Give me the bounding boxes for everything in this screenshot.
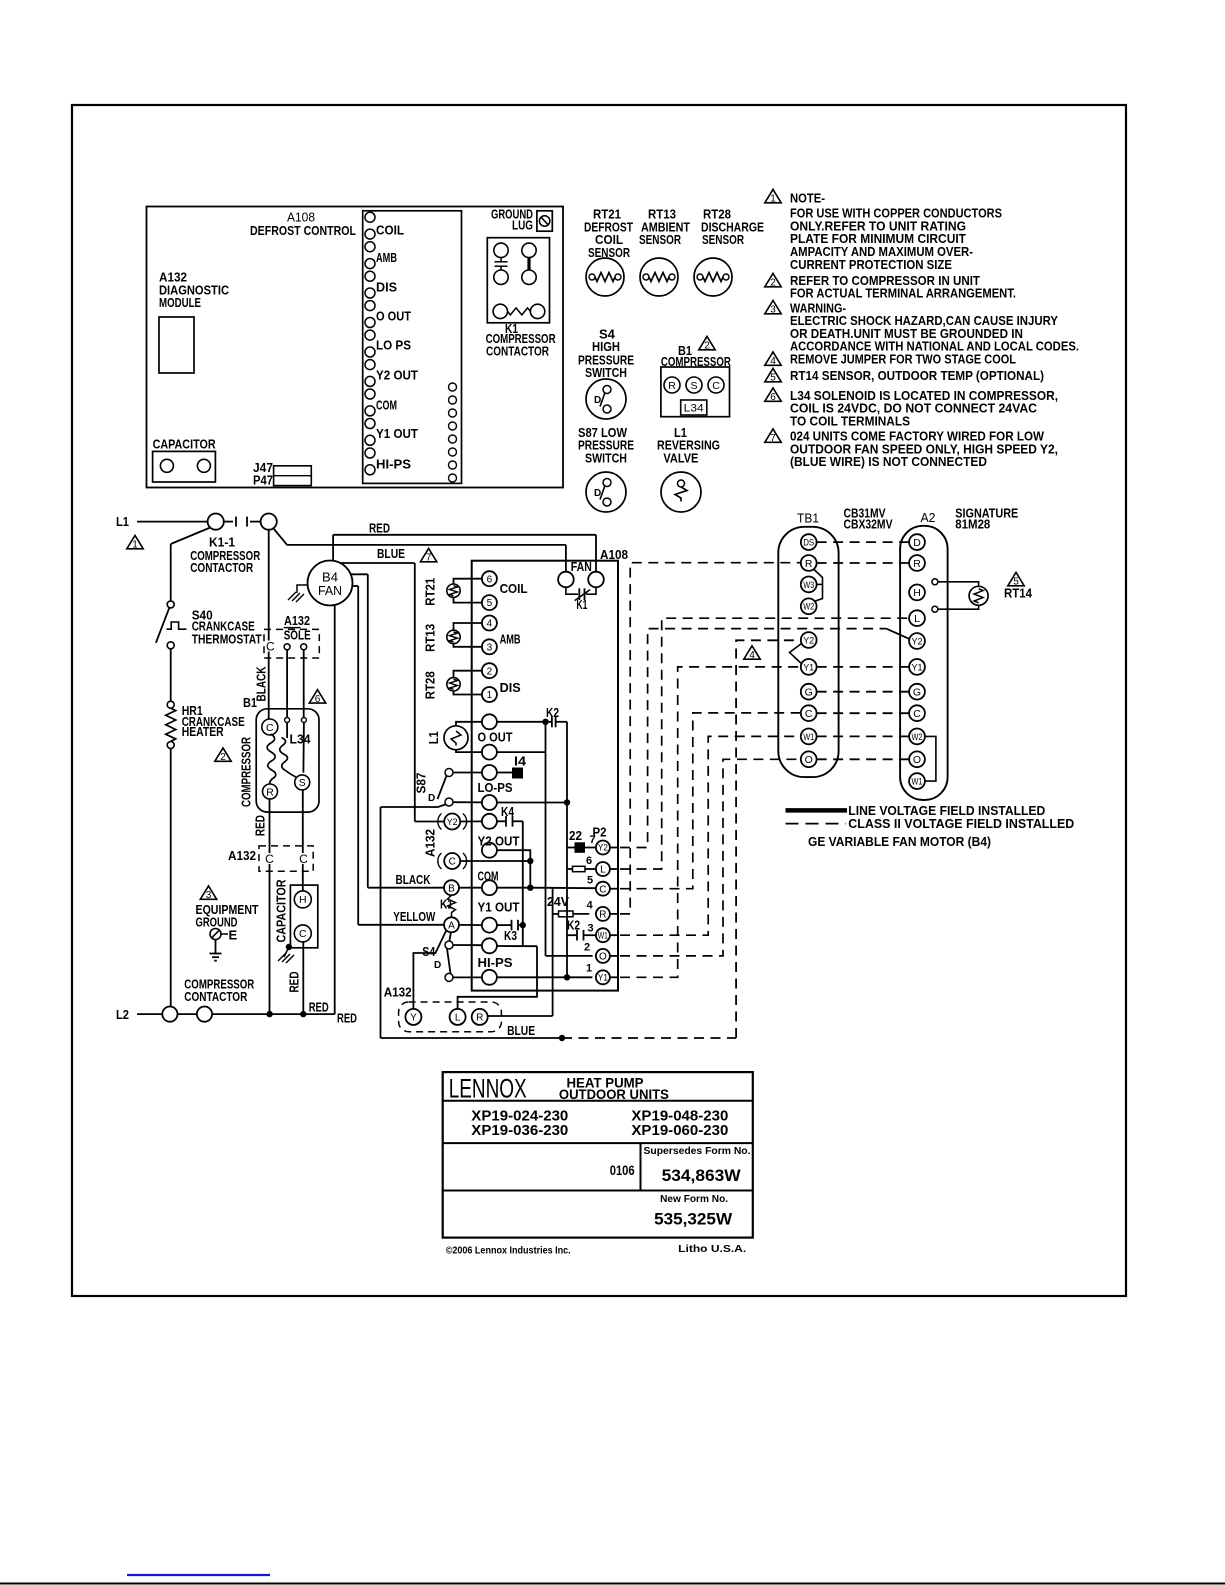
svg-text:I4: I4: [514, 754, 527, 769]
svg-text:New Form No.: New Form No.: [660, 1194, 728, 1205]
svg-text:Supersedes Form No.: Supersedes Form No.: [644, 1146, 751, 1157]
svg-text:R: R: [476, 1013, 483, 1024]
svg-text:Y2: Y2: [598, 843, 608, 853]
svg-text:CAPACITOR: CAPACITOR: [153, 437, 217, 452]
svg-text:L: L: [914, 613, 920, 625]
svg-text:3: 3: [770, 305, 776, 316]
svg-text:5: 5: [770, 373, 776, 384]
svg-text:C: C: [712, 380, 720, 392]
svg-text:A2: A2: [921, 510, 936, 525]
svg-text:W1: W1: [803, 732, 814, 743]
svg-text:RED: RED: [309, 999, 329, 1014]
svg-text:W1: W1: [598, 930, 608, 940]
svg-text:4: 4: [749, 650, 755, 661]
svg-text:G: G: [913, 686, 921, 698]
svg-text:HI-PS: HI-PS: [376, 457, 411, 472]
svg-text:R: R: [668, 380, 676, 392]
svg-text:C: C: [266, 639, 275, 653]
svg-text:DS: DS: [803, 538, 814, 549]
svg-text:BLUE: BLUE: [507, 1023, 535, 1038]
svg-text:Y2: Y2: [447, 817, 458, 828]
svg-text:RT21: RT21: [423, 578, 438, 606]
svg-text:Litho U.S.A.: Litho U.S.A.: [678, 1243, 746, 1255]
svg-text:0106: 0106: [610, 1162, 635, 1178]
svg-text:5: 5: [587, 874, 593, 886]
svg-text:H: H: [299, 894, 307, 906]
svg-text:S4: S4: [422, 944, 436, 959]
svg-text:D: D: [428, 793, 435, 804]
svg-text:3: 3: [487, 642, 493, 653]
svg-text:OUTDOOR UNITS: OUTDOOR UNITS: [559, 1086, 669, 1102]
svg-text:CONTACTOR: CONTACTOR: [184, 989, 247, 1004]
svg-text:SWITCH: SWITCH: [585, 365, 627, 380]
svg-text:RED: RED: [369, 520, 390, 535]
svg-text:G: G: [805, 686, 813, 698]
svg-text:Y1: Y1: [598, 973, 608, 983]
svg-text:COM: COM: [478, 868, 499, 883]
svg-text:DEFROST CONTROL: DEFROST CONTROL: [250, 223, 356, 238]
svg-text:535,325W: 535,325W: [654, 1211, 732, 1229]
svg-text:7: 7: [426, 553, 432, 564]
svg-text:CLASS II VOLTAGE FIELD INSTALL: CLASS II VOLTAGE FIELD INSTALLED: [848, 816, 1074, 831]
svg-text:MODULE: MODULE: [159, 295, 201, 310]
svg-text:2: 2: [584, 941, 590, 953]
svg-text:24V: 24V: [547, 894, 569, 909]
svg-text:S: S: [299, 777, 306, 789]
svg-text:Y1 OUT: Y1 OUT: [376, 426, 418, 441]
svg-text:RT13: RT13: [423, 624, 438, 652]
svg-text:B: B: [448, 883, 455, 894]
svg-text:RT14 SENSOR, OUTDOOR TEMP (OPT: RT14 SENSOR, OUTDOOR TEMP (OPTIONAL): [790, 368, 1044, 383]
svg-text:D: D: [913, 537, 921, 549]
svg-text:O: O: [805, 754, 813, 766]
svg-text:L34: L34: [290, 731, 312, 746]
svg-text:P47: P47: [253, 473, 273, 488]
svg-text:81M28: 81M28: [955, 516, 990, 531]
svg-text:AMB: AMB: [376, 250, 397, 265]
svg-text:2: 2: [220, 752, 226, 763]
svg-text:SENSOR: SENSOR: [702, 232, 744, 247]
svg-text:DIS: DIS: [376, 280, 397, 295]
svg-text:TO COIL TERMINALS: TO COIL TERMINALS: [790, 414, 910, 429]
svg-text:D: D: [594, 488, 601, 499]
svg-text:C: C: [299, 852, 308, 866]
svg-text:XP19-048-230: XP19-048-230: [631, 1108, 728, 1124]
svg-text:K2: K2: [567, 917, 580, 932]
svg-text:1: 1: [132, 540, 138, 551]
svg-text:TB1: TB1: [797, 511, 819, 526]
svg-text:D: D: [594, 395, 601, 406]
svg-text:O: O: [913, 754, 921, 766]
svg-text:W1: W1: [912, 777, 923, 788]
svg-text:S87: S87: [414, 773, 429, 794]
svg-text:BLACK: BLACK: [396, 872, 431, 887]
svg-text:DIS: DIS: [500, 680, 521, 695]
svg-text:4: 4: [770, 356, 776, 367]
svg-text:3: 3: [206, 890, 212, 901]
svg-text:L34: L34: [684, 402, 704, 414]
svg-text:C: C: [913, 708, 921, 720]
svg-text:2: 2: [770, 278, 776, 289]
svg-text:L: L: [600, 865, 606, 876]
svg-text:COMPRESSOR: COMPRESSOR: [239, 737, 254, 807]
svg-text:C: C: [266, 722, 274, 734]
svg-text:CAPACITOR: CAPACITOR: [274, 879, 289, 943]
svg-text:2: 2: [487, 666, 493, 677]
svg-text:P2: P2: [593, 824, 607, 839]
svg-text:W2: W2: [803, 602, 814, 613]
svg-text:SENSOR: SENSOR: [639, 232, 681, 247]
svg-text:L1: L1: [426, 731, 441, 744]
svg-text:E: E: [229, 928, 238, 943]
svg-text:SENSOR: SENSOR: [588, 245, 630, 260]
svg-text:K3: K3: [504, 928, 517, 943]
svg-text:C: C: [265, 852, 274, 866]
svg-text:YELLOW: YELLOW: [393, 909, 436, 924]
svg-text:LO PS: LO PS: [376, 337, 411, 352]
svg-text:A132: A132: [228, 848, 256, 863]
svg-text:A132: A132: [284, 613, 310, 628]
svg-text:BLUE: BLUE: [377, 546, 405, 561]
svg-text:W2: W2: [912, 732, 923, 743]
svg-text:6: 6: [487, 574, 493, 585]
svg-text:AMB: AMB: [500, 632, 521, 647]
svg-text:R: R: [599, 910, 606, 921]
svg-text:Y2: Y2: [803, 635, 814, 646]
svg-text:REMOVE JUMPER FOR TWO STAGE CO: REMOVE JUMPER FOR TWO STAGE COOL: [790, 352, 1016, 367]
svg-text:FAN: FAN: [318, 584, 342, 598]
svg-text:1: 1: [487, 690, 493, 701]
svg-text:2: 2: [704, 341, 710, 352]
svg-text:RED: RED: [337, 1011, 357, 1026]
svg-text:A: A: [448, 920, 455, 931]
svg-text:XP19-036-230: XP19-036-230: [471, 1123, 568, 1139]
svg-text:6: 6: [586, 855, 592, 867]
svg-text:C: C: [805, 708, 813, 720]
svg-text:B4: B4: [322, 571, 338, 585]
svg-text:HI-PS: HI-PS: [478, 955, 513, 970]
svg-text:O OUT: O OUT: [478, 729, 513, 744]
svg-text:L1: L1: [116, 514, 129, 529]
svg-text:CURRENT PROTECTION SIZE: CURRENT PROTECTION SIZE: [790, 257, 952, 272]
svg-text:A108: A108: [600, 547, 628, 562]
svg-text:Y1 OUT: Y1 OUT: [478, 900, 520, 915]
svg-text:7: 7: [770, 433, 776, 444]
svg-text:A132: A132: [384, 984, 412, 999]
svg-text:FAN: FAN: [571, 559, 592, 574]
svg-text:O OUT: O OUT: [376, 308, 411, 323]
svg-text:4: 4: [587, 899, 594, 911]
svg-text:SWITCH: SWITCH: [585, 450, 627, 465]
svg-text:CONTACTOR: CONTACTOR: [486, 343, 549, 358]
svg-text:COIL: COIL: [500, 581, 528, 596]
svg-text:Y1: Y1: [803, 662, 814, 673]
svg-text:RED: RED: [287, 972, 302, 993]
svg-text:1: 1: [586, 962, 592, 974]
svg-text:K1: K1: [576, 597, 587, 612]
svg-text:VALVE: VALVE: [663, 450, 698, 465]
svg-text:W3: W3: [803, 580, 814, 591]
svg-text:Y1: Y1: [912, 662, 923, 673]
svg-text:S: S: [690, 380, 697, 392]
svg-text:3: 3: [588, 922, 594, 934]
svg-text:B1: B1: [243, 695, 257, 710]
svg-text:Y2 OUT: Y2 OUT: [376, 368, 418, 383]
svg-text:L: L: [455, 1013, 461, 1024]
svg-text:5: 5: [487, 598, 493, 609]
svg-text:L2: L2: [116, 1007, 129, 1022]
svg-text:COM: COM: [376, 397, 397, 412]
svg-text:R: R: [913, 558, 921, 570]
svg-text:C: C: [299, 928, 307, 940]
svg-text:R: R: [805, 558, 813, 570]
svg-text:Y: Y: [410, 1013, 417, 1024]
svg-text:Y2: Y2: [912, 636, 923, 647]
svg-text:H: H: [913, 587, 921, 599]
svg-text:FOR ACTUAL TERMINAL ARRANGEMEN: FOR ACTUAL TERMINAL ARRANGEMENT.: [790, 286, 1016, 301]
svg-text:C: C: [449, 857, 456, 868]
svg-text:22: 22: [569, 828, 582, 843]
svg-text:RT28: RT28: [423, 671, 438, 699]
svg-text:GE VARIABLE FAN MOTOR (B4): GE VARIABLE FAN MOTOR (B4): [808, 834, 991, 849]
svg-text:RT14: RT14: [1004, 586, 1033, 601]
svg-text:©2006 Lennox Industries Inc.: ©2006 Lennox Industries Inc.: [446, 1245, 571, 1256]
svg-text:O: O: [599, 952, 607, 963]
svg-text:NOTE-: NOTE-: [790, 191, 825, 206]
svg-text:C: C: [599, 884, 606, 895]
svg-text:4: 4: [487, 619, 493, 630]
svg-text:534,863W: 534,863W: [662, 1167, 741, 1185]
svg-text:THERMOSTAT: THERMOSTAT: [192, 632, 262, 647]
svg-text:LENNOX: LENNOX: [449, 1074, 527, 1104]
svg-text:XP19-060-230: XP19-060-230: [631, 1123, 728, 1139]
svg-text:Y2 OUT: Y2 OUT: [478, 833, 520, 848]
svg-text:CBX32MV: CBX32MV: [844, 516, 893, 531]
svg-text:CONTACTOR: CONTACTOR: [190, 560, 253, 575]
svg-text:(BLUE WIRE) IS NOT CONNECTED: (BLUE WIRE) IS NOT CONNECTED: [790, 454, 987, 469]
svg-text:6: 6: [770, 392, 776, 403]
svg-text:LO-PS: LO-PS: [478, 780, 513, 795]
svg-text:D: D: [434, 960, 441, 971]
svg-text:XP19-024-230: XP19-024-230: [471, 1108, 568, 1124]
svg-text:HEATER: HEATER: [182, 724, 224, 739]
svg-text:1: 1: [770, 194, 776, 205]
svg-text:RED: RED: [253, 815, 268, 836]
svg-text:R: R: [266, 786, 274, 798]
svg-text:A132: A132: [423, 829, 438, 857]
svg-text:6: 6: [315, 694, 321, 705]
svg-text:COIL: COIL: [376, 222, 404, 237]
svg-text:LUG: LUG: [512, 218, 533, 233]
